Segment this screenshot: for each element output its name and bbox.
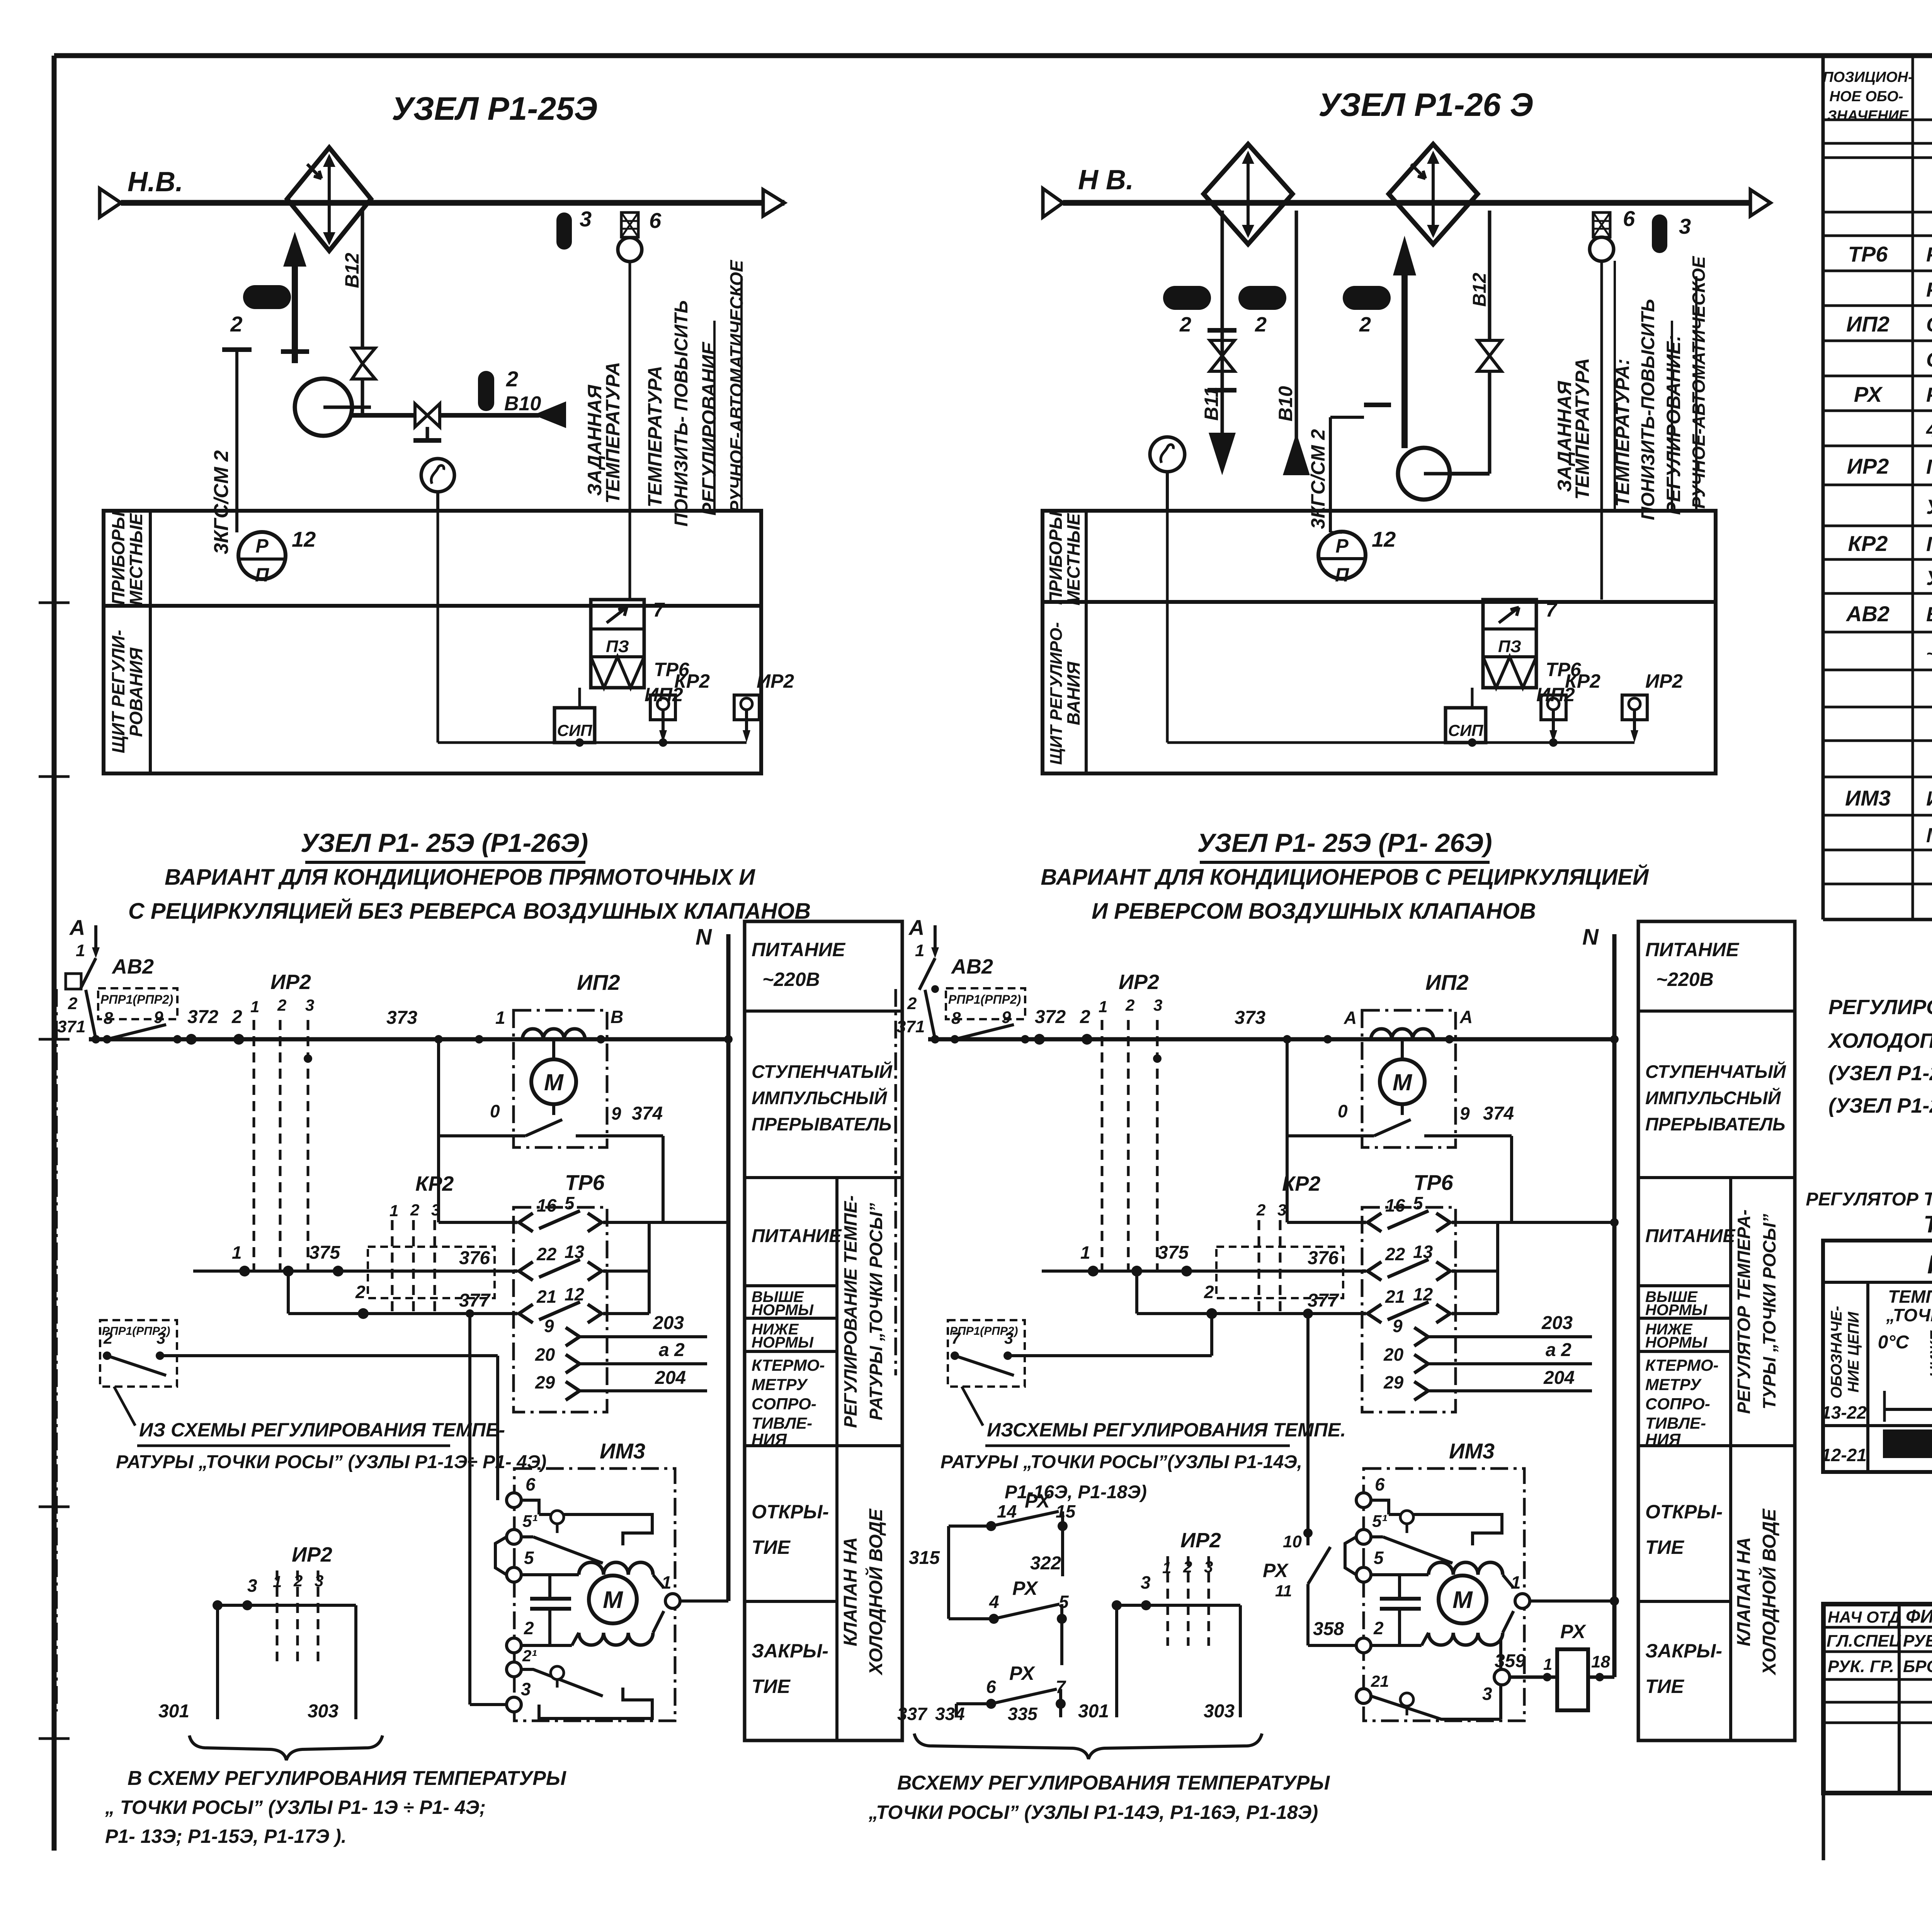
- svg-text:М: М: [1452, 1587, 1473, 1613]
- tee on В11: [1207, 328, 1236, 333]
- terminal 2': [507, 1662, 521, 1677]
- svg-text:а 2: а 2: [1546, 1340, 1571, 1360]
- svg-text:5: 5: [524, 1548, 534, 1568]
- wire 359 to РХ to N: [1510, 1676, 1557, 1679]
- panel bus wires (middle): [1166, 511, 1169, 743]
- svg-text:303: 303: [308, 1701, 338, 1722]
- note Из схемы (middle) 1: [985, 1419, 1346, 1446]
- svg-text:2¹: 2¹: [522, 1647, 537, 1665]
- svg-text:ТЕМПЕРАТУРА: ТЕМПЕРАТУРА: [1571, 358, 1593, 500]
- svg-text:1: 1: [662, 1572, 672, 1593]
- svg-text:204: 204: [655, 1368, 686, 1388]
- svg-text:204: 204: [1543, 1368, 1575, 1388]
- regulator ТР6 dashed box: [514, 1207, 607, 1412]
- svg-text:НОРМЫ: НОРМЫ: [1645, 1334, 1708, 1351]
- svg-text:6: 6: [649, 208, 662, 233]
- svg-text:П: П: [1335, 564, 1349, 586]
- svg-text:РУБЧИНСКИЙ: РУБЧИНСКИЙ: [1903, 1631, 1932, 1650]
- svg-text:(УЗЕЛ Р1-26Э) В ТЕПЛЫЙ ПЕ: (УЗЕЛ Р1-26Э) В ТЕПЛЫЙ ПЕРИОД ГОДА.: [1828, 1093, 1932, 1117]
- svg-text:Р1- 13Э; Р1-15Э, Р1-17Э ).: Р1- 13Э; Р1-15Э, Р1-17Э ).: [105, 1825, 347, 1847]
- temperature sensor 6 (right): [1593, 212, 1610, 237]
- svg-text:371: 371: [57, 1017, 85, 1036]
- svg-text:М: М: [1393, 1069, 1413, 1095]
- svg-text:ТЕМПЕРАТУРА: ТЕМПЕРАТУРА: [602, 362, 624, 504]
- svg-text:РХ: РХ: [1560, 1621, 1586, 1642]
- thermometer pocket 2 (horizontal): [243, 285, 291, 309]
- svg-text:21: 21: [1385, 1287, 1405, 1307]
- svg-text:372: 372: [187, 1007, 218, 1027]
- border frame: [54, 53, 1932, 58]
- thermometer 3: [556, 212, 572, 250]
- contact РХ 14-15: [949, 1490, 1076, 1619]
- duct outlet arrow: [763, 190, 784, 216]
- drain arrow (filled): [533, 401, 566, 428]
- svg-text:335: 335: [1008, 1704, 1038, 1724]
- ТР6 contact 21-12: [514, 1312, 517, 1316]
- svg-text:371: 371: [896, 1017, 925, 1036]
- svg-text:НИЯ: НИЯ: [752, 1430, 787, 1448]
- row ИР2: [1847, 454, 1932, 478]
- svg-text:3: 3: [247, 1576, 257, 1596]
- contact РХ 6-7: [956, 1662, 1066, 1717]
- svg-text:1: 1: [250, 998, 259, 1016]
- jumper 5'-5: [495, 1537, 507, 1575]
- svg-text:ОБОЗНАЧЕ-: ОБОЗНАЧЕ-: [1828, 1306, 1845, 1399]
- svg-text:РЕГУЛИРОВАНИЕ ТЕМПЕ-: РЕГУЛИРОВАНИЕ ТЕМПЕ-: [840, 1195, 861, 1428]
- svg-text:ГЛ.СПЕЦ: ГЛ.СПЕЦ: [1827, 1632, 1901, 1650]
- svg-text:„ТОЧКИ РОСЫ”: „ТОЧКИ РОСЫ”: [1886, 1305, 1932, 1325]
- row РТ-3: [1926, 277, 1932, 302]
- svg-text:~220В: ~220В: [1656, 969, 1714, 990]
- svg-text:ТИЕ: ТИЕ: [752, 1676, 791, 1697]
- capacitor (m): [1380, 1597, 1421, 1601]
- svg-text:РУЧНОЕ-АВТОМАТИЧЕСКОЕ: РУЧНОЕ-АВТОМАТИЧЕСКОЕ: [726, 260, 747, 512]
- selector ИР2 dashed (middle): [1080, 970, 1162, 1271]
- svg-text:377: 377: [1308, 1290, 1339, 1311]
- heat exchanger diamond B: [1389, 144, 1478, 244]
- relay contact РПР1(РПР2): [98, 988, 182, 1044]
- svg-text:РТ-3: РТ-3: [1927, 1250, 1932, 1279]
- svg-text:ОТКРЫ-: ОТКРЫ-: [752, 1501, 829, 1523]
- svg-text:КР2: КР2: [1848, 531, 1888, 556]
- left boundary dash-dot: [55, 989, 58, 1712]
- ТР6 contact 16-5: [439, 1221, 514, 1224]
- svg-text:ИР2: ИР2: [757, 670, 794, 692]
- stepper ИП2 box (middle): [1362, 1010, 1456, 1147]
- heat exchanger diamond A: [1204, 144, 1293, 244]
- svg-text:БРОНШТЕЙН: БРОНШТЕЙН: [1903, 1656, 1932, 1676]
- motor М (ИМ3 m): [1371, 1573, 1429, 1576]
- terminal 2: [507, 1638, 521, 1653]
- svg-text:ПОНИЗИТЬ-ПОВЫСИТЬ: ПОНИЗИТЬ-ПОВЫСИТЬ: [1638, 299, 1658, 520]
- svg-text:2: 2: [355, 1282, 366, 1302]
- svg-text:СТУПЕНЧАТЫЙ: СТУПЕНЧАТЫЙ: [752, 1061, 893, 1082]
- svg-text:СТУПЕНЧАТЫЙ: СТУПЕНЧАТЫЙ: [1645, 1061, 1786, 1082]
- svg-text:13: 13: [1413, 1242, 1433, 1262]
- svg-text:ОТКРЫ-: ОТКРЫ-: [1645, 1501, 1723, 1523]
- wire 377 down (middle): [1306, 1314, 1310, 1533]
- temperature sensor 6: [621, 212, 638, 237]
- wire to ИМ3 terminal 6: [496, 1356, 499, 1500]
- row МЭО: [1926, 820, 1932, 847]
- svg-text:ПРИБОРЫ: ПРИБОРЫ: [1046, 511, 1066, 605]
- svg-text:А: А: [69, 915, 85, 940]
- wire duct line: [121, 200, 784, 206]
- brace (middle): [914, 1734, 1262, 1759]
- terminal 6 (m): [1356, 1493, 1371, 1508]
- actuator ИМ3 box (middle): [1364, 1468, 1524, 1721]
- svg-text:4З+4Р ТУ16 - 523.457 -7 4: 4З+4Р ТУ16 - 523.457 -7 4: [1926, 418, 1932, 441]
- svg-text:РЕГУЛЯТОР ТЕМПЕРА-: РЕГУЛЯТОР ТЕМПЕРА-: [1734, 1209, 1754, 1414]
- terminal 5 (m): [1356, 1567, 1371, 1582]
- svg-text:СТУПЕНЧАТЫЙ ИМПУЛЬСНЫЙ ПРЕРЫ: СТУПЕНЧАТЫЙ ИМПУЛЬСНЫЙ ПРЕРЫВАТЕЛЬ: [1926, 312, 1932, 336]
- svg-text:ПОНИЗИТЬ- ПОВЫСИТЬ: ПОНИЗИТЬ- ПОВЫСИТЬ: [671, 300, 692, 527]
- row 4з+4р: [1926, 416, 1932, 442]
- svg-text:6: 6: [1375, 1474, 1385, 1494]
- svg-text:ИП2: ИП2: [1425, 970, 1469, 994]
- svg-text:ИМ3: ИМ3: [1449, 1439, 1495, 1463]
- ТР6 contact 21-12 (middle): [1362, 1312, 1366, 1316]
- svg-text:ПРЕРЫВАТЕЛЬ: ПРЕРЫВАТЕЛЬ: [1645, 1114, 1785, 1134]
- svg-text:РЕГУЛЯТОР ТЕМПЕРАТУРЫ ЭЛЕКТР: РЕГУЛЯТОР ТЕМПЕРАТУРЫ ЭЛЕКТРИЧЕСКИЙ: [1926, 242, 1932, 266]
- svg-text:РАТУРЫ „ТОЧКИ РОСЫ”: РАТУРЫ „ТОЧКИ РОСЫ”: [866, 1203, 886, 1421]
- row УП5311-С225: [1926, 494, 1932, 519]
- svg-text:1: 1: [1080, 1242, 1090, 1263]
- svg-text:ТИЕ: ТИЕ: [752, 1536, 791, 1558]
- svg-text:ИР2: ИР2: [1645, 670, 1683, 692]
- svg-text:6: 6: [986, 1677, 996, 1697]
- svg-text:337: 337: [897, 1704, 928, 1724]
- terminal 5: [507, 1567, 521, 1582]
- svg-text:322: 322: [1030, 1553, 1061, 1574]
- terminal 21 (m): [1356, 1689, 1371, 1703]
- duct inlet arrow: [100, 189, 121, 217]
- svg-text:22: 22: [1385, 1244, 1405, 1264]
- svg-text:РПР1(РПР2): РПР1(РПР2): [100, 993, 173, 1006]
- instrument Р/П 12: [238, 532, 286, 579]
- svg-text:ИМПУЛЬСНЫЙ: ИМПУЛЬСНЫЙ: [752, 1088, 888, 1108]
- svg-text:(УЗЕЛ Р1-25Э) ИЛИ ВОЗДУХОО: (УЗЕЛ Р1-25Э) ИЛИ ВОЗДУХООХЛАДИТЕЛЯ: [1828, 1062, 1932, 1085]
- svg-text:ИЗ СХЕМЫ РЕГУЛИРОВАНИЯ ТЕМПЕ: ИЗ СХЕМЫ РЕГУЛИРОВАНИЯ ТЕМПЕ-: [139, 1419, 505, 1441]
- svg-text:СИП: СИП: [557, 721, 593, 739]
- left boundary dash-dot (middle): [895, 989, 897, 1375]
- svg-text:ФИНГЕР: ФИНГЕР: [1906, 1606, 1932, 1627]
- svg-text:ИР2: ИР2: [292, 1543, 332, 1566]
- motor М (ИП2): [552, 1039, 555, 1059]
- svg-text:Н В.: Н В.: [1078, 165, 1134, 195]
- svg-text:РЕГУЛИРОВАНИЕ:: РЕГУЛИРОВАНИЕ:: [1663, 335, 1684, 515]
- title block grid: [1823, 1604, 1932, 1860]
- svg-text:373: 373: [1235, 1008, 1265, 1028]
- svg-text:0°С: 0°С: [1878, 1332, 1910, 1353]
- pipe В12 branch: [361, 211, 364, 348]
- svg-text:12: 12: [565, 1284, 585, 1304]
- svg-text:ИР2: ИР2: [270, 970, 311, 994]
- svg-text:НОЕ ОБО-: НОЕ ОБО-: [1829, 88, 1903, 105]
- signal table middle: [1638, 921, 1795, 1740]
- svg-text:2: 2: [524, 1618, 534, 1638]
- svg-text:М: М: [544, 1069, 564, 1095]
- svg-text:377: 377: [459, 1290, 491, 1311]
- svg-text:ИП2: ИП2: [577, 970, 620, 994]
- svg-text:РАТУРЫ „ТОЧКИ РОСЫ”(УЗЛЫ Р1-14: РАТУРЫ „ТОЧКИ РОСЫ”(УЗЛЫ Р1-14Э,: [940, 1452, 1302, 1472]
- wire pump outlet: [352, 413, 415, 418]
- svg-text:В СХЕМУ РЕГУЛИРОВАНИЯ ТЕМПЕР: В СХЕМУ РЕГУЛИРОВАНИЯ ТЕМПЕРАТУРЫ: [128, 1767, 566, 1790]
- svg-text:3: 3: [521, 1679, 531, 1699]
- svg-text:ПИТАНИЕ: ПИТАНИЕ: [752, 1226, 842, 1246]
- brace: [189, 1735, 383, 1760]
- row КР2: [1848, 531, 1932, 556]
- svg-text:В12: В12: [341, 253, 363, 288]
- breaker АВ2: [80, 958, 96, 990]
- svg-text:АВ2: АВ2: [1845, 602, 1889, 626]
- svg-text:НОРМЫ: НОРМЫ: [1645, 1302, 1708, 1319]
- svg-text:ИМ3: ИМ3: [600, 1439, 645, 1463]
- selector ИР2 dashed lines: [231, 970, 314, 1271]
- svg-text:ВСХЕМУ РЕГУЛИРОВАНИЯ ТЕМП: ВСХЕМУ РЕГУЛИРОВАНИЯ ТЕМПЕРАТУРЫ: [897, 1772, 1330, 1794]
- thermometer pocket 2 (vertical): [478, 371, 494, 411]
- switch symbol КР2: [650, 695, 675, 720]
- title Узел Р1-25Э (Р1-26Э) left: [301, 828, 588, 862]
- svg-text:ПРЕРЫВАТЕЛЬ: ПРЕРЫВАТЕЛЬ: [752, 1114, 891, 1134]
- svg-text:а 2: а 2: [659, 1340, 685, 1360]
- svg-text:ХОЛОДНОЙ ВОДЕ: ХОЛОДНОЙ ВОДЕ: [865, 1508, 886, 1676]
- svg-text:18: 18: [1591, 1652, 1610, 1671]
- contact РХ 4-5: [949, 1577, 1069, 1665]
- motor М (ИМ3): [521, 1573, 579, 1576]
- thermometer 3 (right): [1652, 214, 1667, 253]
- terminal 1 (m): [1515, 1594, 1530, 1608]
- svg-text:РХ: РХ: [1025, 1490, 1051, 1512]
- svg-text:1: 1: [389, 1202, 398, 1220]
- terminal 5': [507, 1530, 521, 1544]
- svg-text:ПИТАНИЕ: ПИТАНИЕ: [1645, 939, 1740, 960]
- svg-text:НИЯ: НИЯ: [1645, 1430, 1681, 1448]
- svg-text:3: 3: [431, 1201, 440, 1219]
- svg-text:13-22: 13-22: [1821, 1402, 1867, 1423]
- svg-text:ЗНАЧЕНИЕ: ЗНАЧЕНИЕ: [1827, 108, 1909, 124]
- relay contact РПР1(РПР2) (middle): [946, 988, 1029, 1044]
- svg-text:2: 2: [103, 1329, 112, 1347]
- svg-text:УЗЕЛ Р1-26 Э: УЗЕЛ Р1-26 Э: [1318, 87, 1533, 123]
- svg-text:ИЗСХЕМЫ РЕГУЛИРОВАНИЯ ТЕМПЕ.: ИЗСХЕМЫ РЕГУЛИРОВАНИЯ ТЕМПЕ.: [987, 1419, 1346, 1441]
- svg-text:3КГС/СМ 2: 3КГС/СМ 2: [1307, 429, 1329, 529]
- svg-text:2: 2: [410, 1201, 419, 1219]
- svg-text:„ ТОЧКИ РОСЫ” (УЗЛЫ Р1- 1Э: „ ТОЧКИ РОСЫ” (УЗЛЫ Р1- 1Э ÷ Р1- 4Э;: [105, 1797, 486, 1818]
- ТР6 contact 22-13: [514, 1270, 517, 1273]
- svg-text:9: 9: [1002, 1008, 1011, 1027]
- svg-text:5: 5: [1413, 1193, 1423, 1213]
- svg-text:В12: В12: [1469, 273, 1490, 307]
- svg-text:ИМ3: ИМ3: [1845, 786, 1891, 810]
- svg-text:ТЕМПЕРАТУРА: ТЕМПЕРАТУРА: [644, 366, 666, 508]
- wire 374 loop (middle): [1286, 1039, 1289, 1222]
- selector ИР2 (middle, to dew point circuit): [1078, 1529, 1240, 1722]
- svg-text:3: 3: [1679, 214, 1691, 238]
- motor М (ИП2 middle): [1401, 1039, 1404, 1059]
- svg-text:301: 301: [158, 1701, 189, 1722]
- svg-text:КЛАПАН НА: КЛАПАН НА: [1734, 1537, 1754, 1646]
- svg-text:МЕТРУ: МЕТРУ: [752, 1375, 808, 1394]
- valve В10 (horizontal): [415, 404, 427, 427]
- svg-text:ПЕРЕКЛЮЧАТЕЛЬ УНИВЕРСАЛЬНЫЙ: ПЕРЕКЛЮЧАТЕЛЬ УНИВЕРСАЛЬНЫЙ: [1926, 454, 1932, 478]
- svg-text:КР2: КР2: [674, 670, 710, 692]
- svg-text:РУЧНОЕ-АВТОМАТИЧЕСКОЕ: РУЧНОЕ-АВТОМАТИЧЕСКОЕ: [1689, 256, 1709, 508]
- svg-text:9: 9: [1460, 1103, 1470, 1123]
- svg-text:П: П: [255, 564, 269, 586]
- panel bus wires: [437, 511, 439, 743]
- valve on В12: [352, 348, 375, 364]
- svg-text:УЗЕЛ Р1- 25Э (Р1-26Э): УЗЕЛ Р1- 25Э (Р1-26Э): [301, 828, 588, 858]
- svg-text:РХ: РХ: [1012, 1577, 1038, 1599]
- svg-text:1: 1: [76, 941, 85, 960]
- row СИП-01М: [1926, 347, 1932, 372]
- title Узел Р1-25Э (Р1-26Э) middle: [1197, 828, 1492, 862]
- svg-text:ПИТАНИЕ: ПИТАНИЕ: [752, 939, 846, 960]
- svg-text:И РЕВЕРСОМ ВОЗДУШНЫХ КЛА: И РЕВЕРСОМ ВОЗДУШНЫХ КЛАПАНОВ: [1092, 899, 1536, 924]
- signatures: [1827, 1606, 1932, 1676]
- terminal 5' (m): [1356, 1530, 1371, 1544]
- wire sensor to panel: [436, 492, 439, 511]
- svg-text:1: 1: [1511, 1572, 1521, 1593]
- supply arrow into exchanger B: [1401, 275, 1408, 448]
- svg-text:РЕГУЛЯТОР ТЕМПЕРАТУРЫ: РЕГУЛЯТОР ТЕМПЕРАТУРЫ: [1806, 1189, 1932, 1210]
- pipe В10 branch: [1295, 211, 1298, 475]
- svg-text:ЩИТ РЕГУЛИ-: ЩИТ РЕГУЛИ-: [108, 630, 128, 753]
- svg-text:3: 3: [156, 1329, 165, 1347]
- svg-text:2: 2: [68, 994, 78, 1013]
- svg-text:СОПРО-: СОПРО-: [752, 1395, 816, 1413]
- svg-text:3: 3: [305, 996, 314, 1014]
- svg-text:ТЕМПЕРАТУРА:: ТЕМПЕРАТУРА:: [1612, 359, 1633, 506]
- svg-text:6: 6: [526, 1474, 536, 1494]
- terminal 3: [507, 1697, 521, 1712]
- svg-text:ТИВЛЕ-: ТИВЛЕ-: [752, 1414, 812, 1432]
- svg-text:22: 22: [536, 1244, 557, 1264]
- svg-text:СОПРО-: СОПРО-: [1645, 1395, 1710, 1413]
- relay contact РПР1(РПР2) lower (middle): [948, 1320, 1212, 1387]
- svg-text:„ТОЧКИ РОСЫ” (УЗЛЫ Р1-14Э,: „ТОЧКИ РОСЫ” (УЗЛЫ Р1-14Э, Р1-16Э, Р1-18…: [868, 1802, 1318, 1823]
- svg-text:375: 375: [309, 1242, 340, 1263]
- svg-text:ЩИТ РЕГУЛИРО-: ЩИТ РЕГУЛИРО-: [1047, 622, 1066, 765]
- svg-text:16: 16: [1385, 1195, 1405, 1215]
- svg-text:ПОЗИЦИОН-: ПОЗИЦИОН-: [1823, 69, 1913, 85]
- svg-text:СИП-01М: СИП-01М ТУ50.108 -77: [1926, 348, 1932, 371]
- svg-text:2: 2: [506, 367, 518, 391]
- svg-text:29: 29: [1383, 1372, 1404, 1392]
- svg-text:1: 1: [1543, 1655, 1552, 1673]
- svg-text:РЕЛЕ ПРОМЕЖУТОЧНОЕ ПЭ-21-5УЗ: РЕЛЕ ПРОМЕЖУТОЧНОЕ ПЭ-21-5УЗ ~220В: [1926, 384, 1932, 406]
- svg-text:ТИВЛЕ-: ТИВЛЕ-: [1645, 1414, 1706, 1432]
- wire 374 loop: [437, 1039, 440, 1222]
- svg-text:203: 203: [1541, 1313, 1573, 1333]
- svg-text:375: 375: [1158, 1242, 1189, 1263]
- row ТР6: [1848, 242, 1932, 266]
- svg-text:ИП2: ИП2: [1846, 312, 1889, 336]
- svg-text:2: 2: [1179, 313, 1191, 336]
- svg-text:21: 21: [536, 1287, 556, 1307]
- svg-text:ТЕМПЕРАТУРА: ТЕМПЕРАТУРА: [1888, 1287, 1932, 1307]
- row УП5311-А225: [1926, 565, 1932, 590]
- svg-text:КТЕРМО-: КТЕРМО-: [1645, 1356, 1719, 1374]
- ТР6 contact 16-5 (middle): [1287, 1221, 1362, 1224]
- selector КР2 dashed box: [368, 1172, 495, 1314]
- selector КР2 dashed box (middle): [1216, 1172, 1343, 1314]
- switch symbol КР2 (middle): [1541, 695, 1566, 720]
- pump circle: [295, 379, 352, 436]
- svg-text:9: 9: [154, 1008, 163, 1027]
- svg-text:2: 2: [1080, 1007, 1090, 1027]
- svg-text:РАТУРЫ „ТОЧКИ РОСЫ” (УЗЛЫ Р1-1: РАТУРЫ „ТОЧКИ РОСЫ” (УЗЛЫ Р1-1Э÷ Р1- 4Э): [116, 1452, 546, 1472]
- svg-text:2: 2: [907, 994, 917, 1013]
- svg-text:РУК. ГР.: РУК. ГР.: [1828, 1657, 1894, 1676]
- svg-text:УП5311 - А225 ТУ16 - 524.07: УП5311 - А225 ТУ16 - 524.074 - 75: [1926, 567, 1932, 590]
- svg-text:N: N: [696, 925, 712, 950]
- humidity sensor circle 2: [1150, 437, 1185, 472]
- leader line: [114, 1387, 135, 1426]
- relay contact РПР1(РПР2) lower: [100, 1320, 498, 1387]
- parts list table grid: [1823, 56, 1932, 920]
- diagram table ТР6 (РТ-3): [1821, 1241, 1932, 1472]
- svg-text:АВ2: АВ2: [111, 955, 154, 978]
- svg-text:9: 9: [611, 1103, 621, 1123]
- regulator ТР6 dashed box (middle): [1362, 1207, 1456, 1412]
- svg-text:4: 4: [989, 1592, 999, 1612]
- svg-text:3: 3: [580, 207, 592, 231]
- svg-text:МЕТРУ: МЕТРУ: [1645, 1375, 1702, 1394]
- svg-text:376: 376: [1308, 1248, 1338, 1268]
- svg-text:ТР6: ТР6: [1413, 1170, 1454, 1195]
- humidity sensor circle: [421, 459, 454, 492]
- svg-text:14: 14: [997, 1501, 1017, 1521]
- duct inlet arrow 2: [1043, 189, 1063, 217]
- svg-text:МЭО- 0,63/63 - 0, 2 5; ТУ1-01: МЭО- 0,63/63 - 0, 2 5; ТУ1-01.0321- 76: [1926, 824, 1932, 847]
- svg-text:5: 5: [565, 1193, 575, 1213]
- svg-text:ВАНИЯ: ВАНИЯ: [1063, 661, 1083, 725]
- svg-text:ПИТАНИЕ: ПИТАНИЕ: [1645, 1226, 1736, 1246]
- svg-text:2: 2: [1359, 313, 1371, 336]
- svg-text:НАЧ ОТД: НАЧ ОТД: [1828, 1608, 1901, 1626]
- svg-text:3: 3: [1004, 1329, 1013, 1347]
- svg-text:ТИЕ: ТИЕ: [1645, 1536, 1685, 1558]
- svg-text:НОРМЫ: НОРМЫ: [752, 1334, 814, 1351]
- block СИП (middle): [1446, 708, 1486, 743]
- svg-text:2: 2: [1255, 313, 1267, 336]
- duct outlet arrow 2: [1750, 190, 1770, 216]
- svg-text:2: 2: [277, 996, 286, 1014]
- svg-text:РПР1(РПР2): РПР1(РПР2): [948, 993, 1021, 1006]
- svg-text:РХ: РХ: [1263, 1560, 1289, 1581]
- row 377 (middle): [1135, 1271, 1138, 1314]
- svg-text:12: 12: [292, 527, 316, 551]
- svg-text:12-21: 12-21: [1821, 1445, 1867, 1465]
- svg-text:В: В: [611, 1007, 623, 1027]
- svg-text:0: 0: [490, 1101, 500, 1121]
- interrupter contact: [552, 1104, 555, 1115]
- svg-text:2: 2: [231, 1007, 242, 1027]
- svg-text:КР2: КР2: [415, 1172, 454, 1195]
- tee symbol: [222, 347, 252, 352]
- svg-text:7: 7: [653, 599, 665, 621]
- svg-text:НОРМЫ: НОРМЫ: [752, 1302, 814, 1319]
- switch symbol ИР2 (middle): [1622, 695, 1647, 720]
- svg-text:8: 8: [951, 1009, 961, 1028]
- node 359 circle: [1494, 1669, 1510, 1685]
- panel box left: [104, 511, 761, 773]
- svg-text:В10: В10: [504, 393, 541, 415]
- contact РХ 10-11: [1306, 1533, 1310, 1545]
- svg-text:3: 3: [1482, 1684, 1492, 1704]
